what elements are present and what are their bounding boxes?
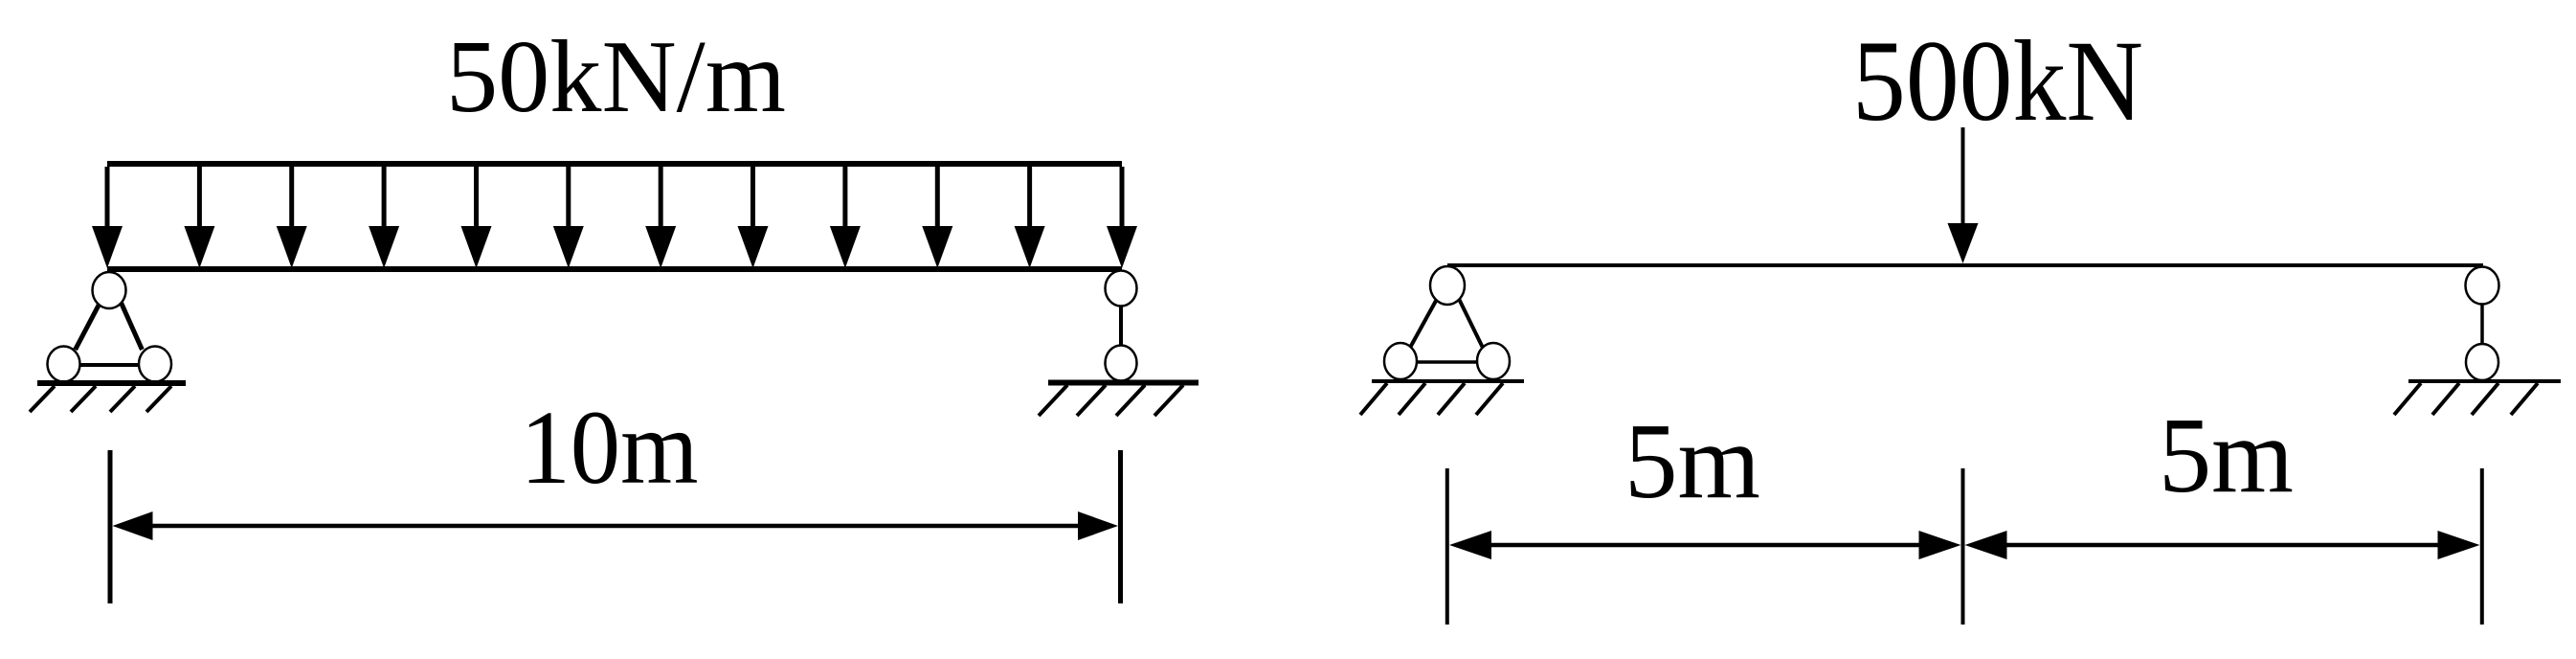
svg-text:50kN/m: 50kN/m <box>446 20 786 134</box>
svg-text:5m: 5m <box>2159 397 2294 515</box>
svg-text:5m: 5m <box>1624 402 1760 521</box>
svg-text:10m: 10m <box>521 389 699 506</box>
svg-text:500kN: 500kN <box>1852 17 2143 146</box>
